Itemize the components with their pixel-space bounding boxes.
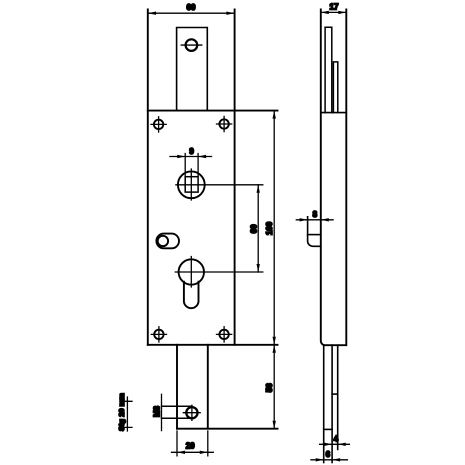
screw hole bottom-right — [217, 327, 232, 342]
oval slot — [156, 234, 179, 249]
front view case outline — [148, 10, 235, 345]
locking rod right — [337, 345, 339, 449]
side rod channel rect2 — [333, 62, 337, 113]
oval slot pin circle — [158, 236, 168, 246]
dimension 56 right — [273, 345, 275, 429]
svg-text:8: 8 — [313, 210, 318, 219]
screw hole top-left — [151, 117, 166, 132]
euro cylinder lobe — [184, 282, 199, 308]
side view plate outline — [321, 10, 347, 346]
spindle hole circle — [178, 171, 205, 198]
svg-text:6: 6 — [326, 450, 331, 459]
svg-text:60: 60 — [250, 224, 259, 233]
spindle crosshair — [176, 169, 263, 200]
locking rod middle — [331, 345, 333, 462]
bottom tail — [177, 345, 208, 429]
rod joint lower — [324, 428, 332, 430]
dimension 8 side — [296, 219, 333, 221]
M8 screw crosshair — [183, 405, 200, 420]
svg-text:M8: M8 — [153, 405, 162, 417]
dimension 4 rod — [320, 443, 350, 445]
side protrusion — [308, 217, 321, 247]
dimension 20 bottom — [177, 431, 208, 456]
locking rod left — [323, 345, 325, 462]
spindle square — [185, 177, 198, 192]
svg-text:4: 4 — [334, 435, 339, 444]
side rod channel rect1 — [325, 27, 332, 112]
top slide screw line — [181, 44, 201, 46]
M8 block — [162, 406, 192, 418]
front view body top edge — [148, 110, 278, 112]
rod joint upper — [332, 393, 338, 395]
svg-text:20: 20 — [186, 442, 195, 451]
screw hole bottom-left — [151, 327, 166, 342]
svg-text:17: 17 — [330, 2, 339, 11]
euro cylinder circle — [179, 259, 204, 284]
tail bottom edge — [177, 428, 278, 430]
screw hole top-right — [217, 116, 232, 131]
dimension 6 rod — [311, 459, 347, 461]
side view divider — [321, 112, 347, 114]
euro cylinder crosshair — [175, 257, 262, 288]
svg-text:160: 160 — [265, 221, 274, 235]
top slide screw circle — [186, 39, 198, 51]
dimension 60 top — [148, 12, 235, 14]
svg-text:9: 9 — [189, 147, 194, 156]
M8 screw circle — [186, 407, 197, 418]
svg-text:60: 60 — [187, 3, 196, 12]
dimension 160 right — [273, 111, 275, 345]
top channel inner rect — [177, 28, 208, 111]
dimension 60 right — [257, 185, 259, 272]
svg-text:56: 56 — [265, 383, 274, 392]
dimension 17 — [321, 11, 347, 13]
front view body bottom edge — [148, 344, 278, 346]
stroke indicator ticks — [123, 397, 132, 431]
svg-text:Stg 20 mm: Stg 20 mm — [117, 393, 126, 431]
dimension 9 spindle — [185, 154, 198, 177]
